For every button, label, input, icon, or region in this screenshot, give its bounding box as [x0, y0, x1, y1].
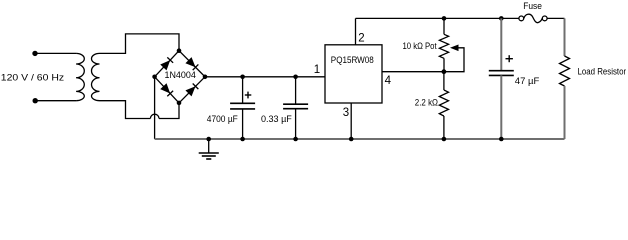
wire: top rail from pin2 to fuse	[356, 17, 519, 19]
node: bridge bottom	[177, 101, 182, 106]
label: C3 polarity +	[506, 55, 513, 62]
svg-text:10 kΩ Pot: 10 kΩ Pot	[403, 40, 437, 51]
diode D1 (left node to top node)	[160, 57, 173, 70]
node: ground junction	[206, 137, 211, 142]
node: R2 rail junction	[442, 137, 447, 142]
capacitor C3 47uF	[489, 18, 514, 139]
wire: crossover to bridge bottom node	[159, 103, 179, 119]
node: C2 top junction	[293, 75, 298, 80]
wire: bottom rail	[155, 138, 565, 140]
svg-text:4700 µF: 4700 µF	[207, 114, 238, 124]
svg-text:2.2 kΩ: 2.2 kΩ	[415, 96, 438, 107]
wire: fuse to load resistor corner	[547, 17, 564, 19]
svg-text:PQ15RW08: PQ15RW08	[331, 55, 374, 65]
svg-text:1: 1	[314, 64, 320, 76]
node: C2 bottom junction	[293, 137, 298, 142]
label: C1 polarity +	[245, 92, 252, 99]
node: bridge right	[203, 75, 208, 80]
wire: pin 2 up to top rail	[355, 18, 357, 44]
svg-text:0.33 µF: 0.33 µF	[261, 114, 292, 124]
node: top rail / C3 junction	[499, 16, 504, 21]
ground symbol	[199, 139, 219, 159]
svg-text:2: 2	[358, 33, 364, 45]
node: bridge top	[177, 48, 182, 53]
potentiometer R1 10 kOhm	[439, 18, 448, 71]
wire: bridge right node to regulator pin 1	[205, 76, 325, 78]
wire hop over ground wire	[150, 114, 159, 118]
svg-text:Fuse: Fuse	[523, 0, 542, 11]
wire: bottom terminal to transformer primary	[35, 100, 76, 102]
svg-text:4: 4	[385, 75, 392, 87]
wire: secondary top to bridge top node	[100, 34, 180, 54]
wire: wiper return	[444, 48, 464, 72]
potentiometer wiper arrow	[450, 45, 459, 52]
capacitor C2 0.33uF	[283, 77, 308, 139]
svg-text:3: 3	[343, 107, 349, 119]
load resistor R3	[560, 18, 570, 139]
diode D4 (bottom node to right node)	[185, 83, 198, 96]
diode D3 (left node to bottom node)	[160, 83, 173, 96]
svg-text:1N4004: 1N4004	[165, 70, 196, 80]
resistor R2 2.2 kOhm	[439, 72, 448, 139]
node: pin 3 rail junction	[349, 137, 354, 142]
svg-text:47 µF: 47 µF	[515, 75, 540, 86]
transformer T1 primary winding	[76, 53, 84, 100]
wire: top terminal to transformer primary	[35, 52, 76, 54]
svg-text:Load Resistor: Load Resistor	[578, 65, 627, 76]
node: pot top junction	[442, 16, 447, 21]
svg-text:120 V / 60 Hz: 120 V / 60 Hz	[1, 72, 65, 83]
wire: pin 4 to junction	[382, 71, 444, 73]
fuse F1	[519, 14, 547, 22]
node: AC source terminal bottom	[33, 98, 38, 103]
transformer T1 secondary winding	[91, 53, 99, 100]
node: bridge left	[152, 75, 157, 80]
node: pin 4 junction	[442, 69, 447, 74]
wire: pin 3 down to rail	[350, 103, 352, 139]
regulator U1 PQ15RW08	[325, 45, 382, 103]
wire: bridge left node down to ground rail	[154, 77, 156, 139]
bridge rectifier edges	[155, 51, 205, 103]
diode D2 (top node to right node)	[185, 57, 198, 70]
node: C1 bottom junction	[240, 137, 245, 142]
node: C1 top junction	[240, 75, 245, 80]
wire: secondary bottom to crossover	[100, 101, 151, 119]
node: AC source terminal top	[32, 51, 37, 56]
capacitor C1 4700uF	[230, 77, 255, 139]
node: C3 bottom junction	[499, 137, 504, 142]
